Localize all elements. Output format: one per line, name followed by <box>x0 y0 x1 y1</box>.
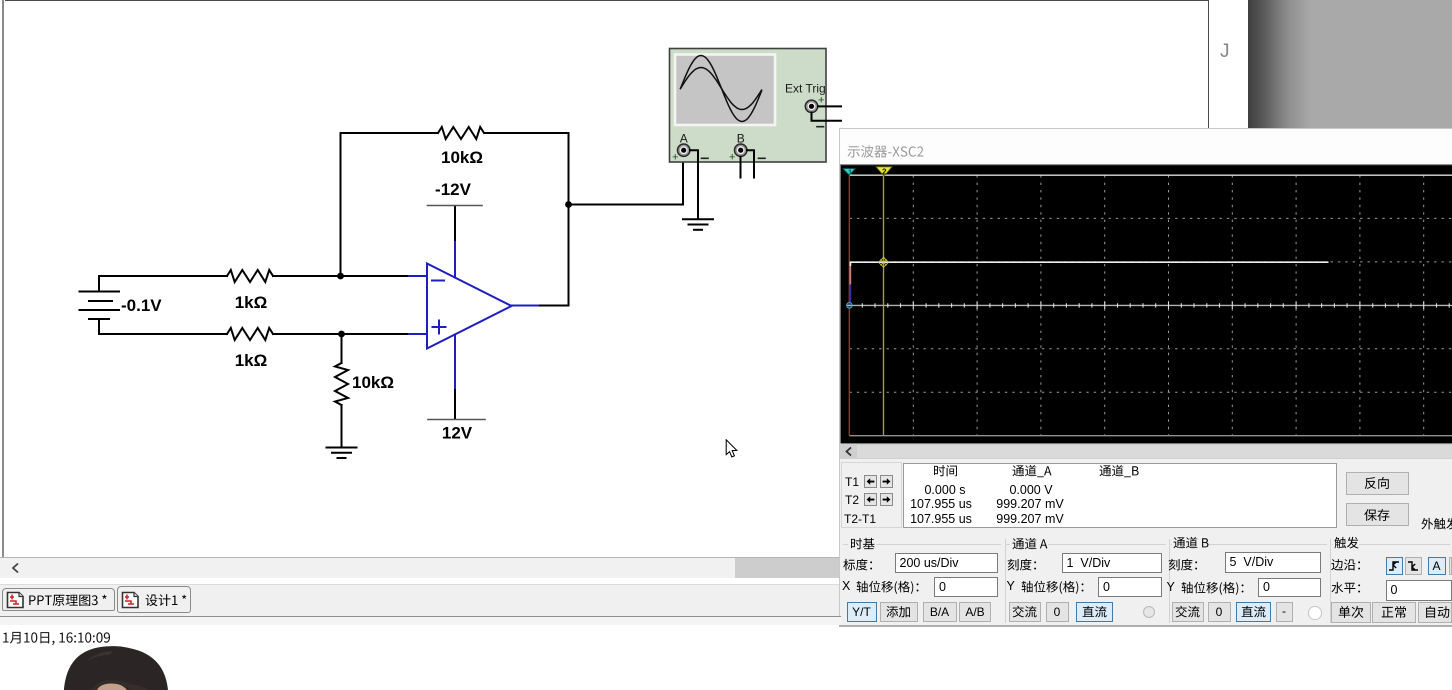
wire B+ stub <box>740 157 742 178</box>
op-amp U1 triangle <box>427 264 512 349</box>
svg-text:-0.1V: -0.1V <box>121 296 162 315</box>
webcam overlay person head <box>55 642 180 690</box>
node junction feedback/inverting input <box>337 273 344 280</box>
svg-text:1: 1 <box>848 167 852 176</box>
channel A color indicator <box>1143 606 1155 618</box>
power symbol VCC 12V bar <box>428 419 485 421</box>
wire R4 to ground <box>341 405 343 447</box>
design tab bar <box>0 584 839 617</box>
save button <box>1346 503 1410 526</box>
op-amp output pin wire <box>512 305 541 307</box>
trigger section title <box>1334 533 1361 552</box>
op-amp positive supply pin wire <box>454 335 456 391</box>
oscilloscope terminal Ext Trig <box>805 100 817 112</box>
T1 zero circle marker <box>847 303 853 309</box>
svg-text:12V: 12V <box>442 424 473 443</box>
ground symbol (A-) <box>683 219 713 230</box>
trigger edge rising button (selected) <box>1386 557 1403 575</box>
time axis tick marks <box>850 302 1450 309</box>
cursor T1 cyan triangle marker <box>843 169 855 175</box>
resistor R1 1k top <box>227 270 273 282</box>
channel A DC button (selected) <box>1076 602 1114 623</box>
wire battery- to R2 <box>99 333 227 335</box>
gray window area top-right <box>1248 0 1452 128</box>
wire B- stub <box>747 150 754 177</box>
trigger source B button (cut off) <box>1449 557 1452 575</box>
channel B DC button (selected) <box>1236 602 1271 622</box>
node junction R2/R4 <box>338 331 345 338</box>
timebase section title <box>850 534 877 553</box>
channel B AC button <box>1172 602 1204 622</box>
svg-text:Ext Trig: Ext Trig <box>785 82 826 96</box>
channel A Y offset label <box>1007 579 1015 593</box>
timebase X offset input <box>934 577 998 597</box>
svg-text:10kΩ: 10kΩ <box>441 148 483 167</box>
channel A AC button <box>1009 602 1041 623</box>
recording timestamp <box>2 629 112 647</box>
op-amp plus sign <box>433 321 446 334</box>
wire Ext Trig - stub <box>812 113 842 121</box>
cursor T2 yellow line <box>883 167 885 436</box>
svg-text:+: + <box>818 95 824 107</box>
node output junction <box>565 201 572 208</box>
plot border top/bottom/left lines <box>850 174 1452 176</box>
status strip below tabs <box>0 617 841 625</box>
window title bar <box>840 129 1452 165</box>
resistor R4 10k to ground <box>335 363 348 405</box>
Y/T button (selected) <box>847 602 877 623</box>
channel B 0 button <box>1208 602 1232 622</box>
channel A section title <box>1012 534 1050 553</box>
svg-text:2: 2 <box>882 168 887 177</box>
scope window scrollbar <box>840 444 1452 459</box>
schematic sheet left border <box>2 0 4 557</box>
oscilloscope window XSC2 <box>839 128 1452 626</box>
op-amp minus sign <box>432 280 444 282</box>
wire output to oscilloscope A+ <box>569 157 684 205</box>
schematic sheet top border <box>5 0 1209 1</box>
trigger source A button (selected) <box>1428 557 1447 575</box>
A/B button <box>959 602 991 623</box>
tab PPT原理图3 <box>2 588 115 611</box>
terminal A minus mark <box>702 157 709 159</box>
power symbol VEE -12V bar <box>428 205 483 207</box>
svg-text:+: + <box>729 151 735 163</box>
wire feedback top right segment <box>485 133 569 306</box>
channel A trace <box>850 262 1328 266</box>
oscilloscope screen sine curve 2 <box>681 68 762 110</box>
oscilloscope XSC2 instrument body <box>670 49 827 163</box>
svg-text:10kΩ: 10kΩ <box>352 373 394 392</box>
channel A scale input <box>1062 553 1163 573</box>
oscilloscope XSC2 screen <box>675 55 775 126</box>
op-amp negative supply pin wire <box>454 240 456 278</box>
channel A trace rise colored segments <box>849 266 851 285</box>
timebase X offset label <box>842 579 850 593</box>
terminal B minus mark <box>759 157 766 159</box>
B/A button <box>923 602 958 623</box>
tab 设计1 (active) <box>117 586 191 613</box>
cursor T1 red line <box>848 176 850 436</box>
add button <box>880 602 918 623</box>
T1 left/right buttons <box>864 475 877 488</box>
resistor R3 10k feedback <box>438 127 484 139</box>
svg-text:1kΩ: 1kΩ <box>235 293 268 312</box>
cursor readout left panel <box>841 462 902 529</box>
scrollbar left arrow <box>10 562 22 574</box>
svg-text:-12V: -12V <box>435 180 472 199</box>
time axis line <box>850 304 1452 306</box>
wire battery+ to R1 <box>99 275 227 277</box>
mouse cursor <box>725 439 740 459</box>
T2 crossing diamond marker <box>879 257 889 267</box>
plot grid horizontal dashed lines <box>850 218 1452 392</box>
oscilloscope screen sine curve 1 <box>681 56 762 122</box>
wire feedback vertical <box>340 133 342 276</box>
wire feedback top left segment <box>341 132 438 134</box>
channel B minus button <box>1276 602 1293 622</box>
ext trigger label (cut) <box>1421 514 1452 533</box>
scrollbar thumb <box>735 558 839 578</box>
wire R1 to op-amp inverting input <box>273 275 409 277</box>
single button <box>1331 602 1371 623</box>
svg-text:+: + <box>672 151 678 163</box>
wire R2 to op-amp non-inverting input <box>273 333 409 335</box>
cursor T2 yellow triangle marker <box>876 167 892 176</box>
battery V1 -0.1V <box>80 276 120 334</box>
oscilloscope terminal A <box>678 144 690 156</box>
channel B Y offset input <box>1258 578 1321 597</box>
channel B section title <box>1173 533 1212 552</box>
plot grid vertical dashed lines <box>913 175 1423 436</box>
trigger level input <box>1386 580 1452 601</box>
wire A- to ground <box>690 150 698 219</box>
trigger edge falling button <box>1405 557 1422 575</box>
wire node to R4 <box>341 334 343 363</box>
svg-text:1kΩ: 1kΩ <box>235 351 268 370</box>
channel A 0 button <box>1046 602 1069 623</box>
T2 left/right buttons <box>864 493 877 506</box>
channel A Y offset input <box>1098 577 1162 597</box>
timebase scale input <box>895 553 998 573</box>
Ext Trig minus mark <box>817 126 824 128</box>
channel B scale input <box>1225 552 1322 573</box>
readout values box <box>903 463 1337 529</box>
reverse button <box>1346 472 1410 496</box>
resistor R2 1k bottom <box>227 328 273 340</box>
oscilloscope terminal B <box>735 144 747 156</box>
ground symbol (R4) <box>327 448 357 459</box>
channel B Y offset label <box>1167 580 1175 594</box>
auto button <box>1418 602 1452 623</box>
svg-text:B: B <box>737 131 745 145</box>
normal button <box>1372 602 1416 623</box>
sheet zone label J <box>1220 41 1242 63</box>
scope display background <box>841 165 1452 444</box>
canvas horizontal scrollbar <box>0 557 839 558</box>
schematic sheet right border <box>1208 0 1209 129</box>
wire Ext Trig + stub <box>818 105 841 107</box>
channel B color indicator <box>1308 606 1322 620</box>
svg-text:A: A <box>680 131 688 145</box>
